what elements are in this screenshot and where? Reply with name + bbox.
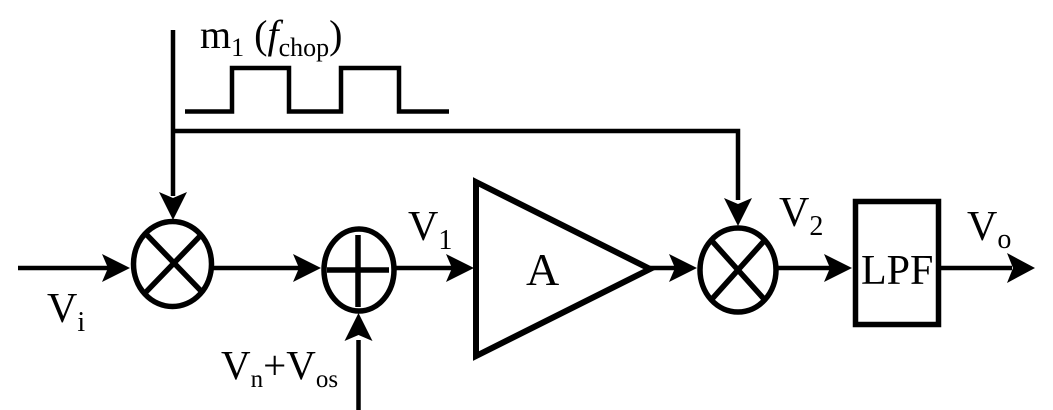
wire: output with arrowhead — [941, 253, 1035, 283]
wire: noise input from bottom into summer — [345, 313, 373, 410]
wire: input with arrowhead — [18, 254, 130, 282]
summer S1 (circle with plus) — [324, 229, 394, 311]
svg-text:A: A — [526, 244, 559, 295]
wire: chopper control branch to mixer M2 — [173, 131, 752, 226]
wire: mixer M1 to summer — [212, 254, 321, 282]
block LPF — [856, 202, 939, 325]
wire: amplifier to mixer M2 — [650, 254, 697, 282]
wire: summer to amplifier — [395, 254, 474, 282]
mixer M2 (multiplier circle with X) — [700, 228, 776, 312]
wire: mixer M2 to LPF — [777, 254, 852, 282]
wire: chopper control vertical line into mixer M1 — [159, 30, 187, 220]
svg-text:LPF: LPF — [861, 248, 933, 294]
chopping square waveform — [185, 68, 449, 112]
mixer M1 (multiplier circle with X) — [134, 222, 212, 307]
amplifier A (triangle) — [476, 182, 650, 356]
